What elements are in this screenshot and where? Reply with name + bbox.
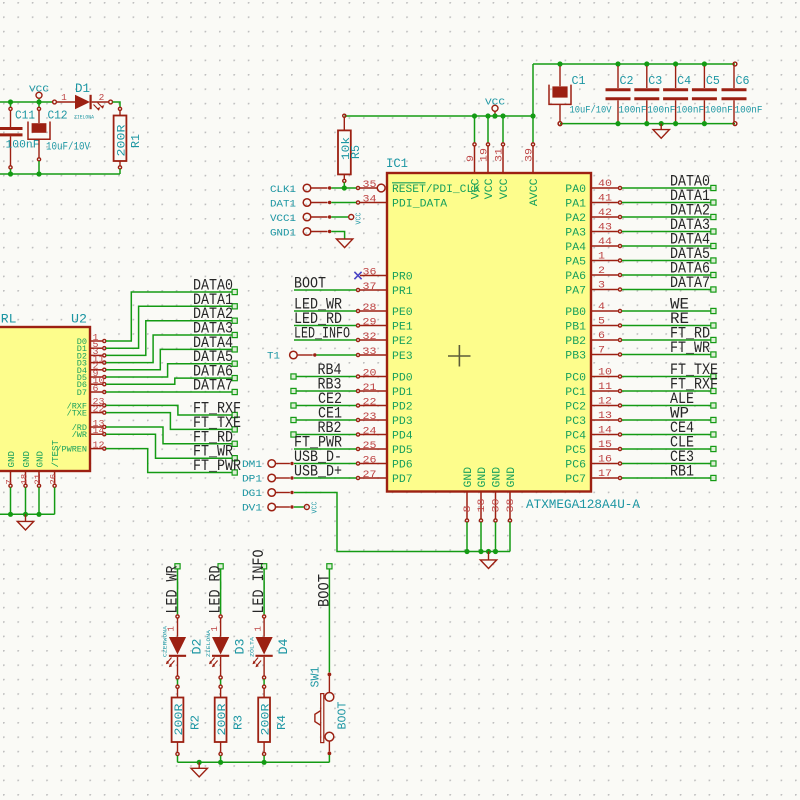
svg-text:26: 26 [363, 455, 377, 466]
node FT_RD [711, 337, 716, 342]
svg-text:ZOLTA: ZOLTA [248, 636, 255, 657]
wire net FT_TXE [106, 413, 232, 430]
node DATA0 [232, 289, 237, 294]
pin 14 PC4 [591, 434, 618, 436]
wire SW1 to rail [328, 755, 330, 762]
wire net FT_RD [106, 427, 232, 444]
node FT_TXE [232, 427, 237, 432]
svg-text:BOOT: BOOT [315, 574, 333, 607]
svg-text:38: 38 [506, 499, 517, 513]
capacitor C5 [703, 66, 705, 88]
capacitor C4 [675, 66, 677, 88]
diode D3 [219, 615, 222, 618]
pin 37 PR1 [360, 289, 387, 291]
wire DV1 net [294, 506, 304, 508]
svg-text:200R: 200R [217, 703, 229, 735]
pin 20 PD0 [360, 376, 387, 378]
node C6 bottom [733, 122, 737, 126]
svg-text:PD6: PD6 [392, 460, 413, 472]
pin 18 GND (U2 bottom) [25, 471, 27, 484]
svg-text:USB_D+: USB_D+ [294, 463, 342, 481]
svg-text:GND: GND [506, 466, 518, 487]
junction [23, 512, 28, 517]
node RB2 [291, 432, 296, 437]
svg-text:PC7: PC7 [565, 474, 586, 486]
node LED_RD [218, 564, 223, 569]
connector pin GND1 [303, 228, 311, 236]
pin 31 VCC (top) [502, 116, 504, 142]
junction [486, 549, 491, 554]
svg-text:200R: 200R [174, 703, 186, 735]
svg-text:4: 4 [598, 302, 605, 313]
svg-text:PA5: PA5 [565, 257, 586, 269]
svg-text:PD1: PD1 [392, 387, 413, 399]
wire net RB1 [622, 477, 711, 479]
pin 25 PD5 [360, 448, 387, 450]
pin 12 PC2 [591, 405, 618, 407]
svg-text:32: 32 [363, 332, 377, 343]
pin 4 PB0 [591, 310, 618, 312]
wire net RE [622, 325, 711, 327]
junction [557, 61, 562, 66]
svg-text:RB1: RB1 [670, 463, 694, 481]
wire net DATA2 [622, 216, 711, 218]
svg-text:PC3: PC3 [565, 416, 586, 428]
svg-text:12: 12 [93, 440, 105, 450]
pin 22 PD2 [360, 405, 387, 407]
pin 13 PC3 [591, 419, 618, 421]
junction [262, 760, 267, 765]
svg-text:100nF: 100nF [6, 140, 40, 152]
svg-text:FT_WR: FT_WR [670, 339, 710, 357]
pin 14 /WR (U2) [90, 433, 102, 435]
wire net DATA1 [106, 306, 232, 348]
svg-text:PC0: PC0 [565, 373, 586, 385]
capacitor C11 [10, 102, 12, 107]
pin 11 D3 (U2) [90, 362, 102, 364]
node C1 bottom [558, 122, 562, 126]
svg-text:U2: U2 [71, 312, 87, 327]
wire CLK1 net [331, 187, 356, 189]
pin 30 GND (bottom) [495, 492, 497, 519]
wire net FT_RXF [106, 405, 232, 415]
svg-text:35: 35 [363, 180, 377, 191]
node RB4 [291, 374, 296, 379]
pin 10 D6 (U2) [90, 383, 102, 385]
supply VCC [36, 92, 42, 98]
svg-text:36: 36 [363, 267, 377, 278]
wire net BOOT [294, 289, 356, 291]
ground (U2) [25, 514, 27, 521]
pin 3 PA7 [591, 289, 618, 291]
svg-text:16: 16 [598, 455, 612, 466]
svg-text:BOOT: BOOT [294, 275, 326, 293]
svg-text:LED_WR: LED_WR [164, 565, 182, 613]
node DATA7 [711, 287, 716, 292]
svg-text:19: 19 [480, 148, 491, 162]
svg-text:PA1: PA1 [565, 199, 586, 211]
svg-text:PD3: PD3 [392, 416, 413, 428]
svg-text:DP1: DP1 [242, 475, 262, 486]
wire R3 to rail [220, 756, 222, 763]
svg-text:AVCC: AVCC [529, 178, 541, 206]
wire U2 GND rail [0, 513, 55, 515]
svg-text:C12: C12 [48, 109, 68, 123]
diode D2 [176, 615, 179, 618]
node RB3 [291, 388, 296, 393]
svg-text:24: 24 [363, 426, 377, 437]
svg-text:25: 25 [363, 441, 377, 452]
capacitor C1 [559, 66, 561, 86]
node DATA6 [232, 376, 237, 381]
supply VCC (VCC1) [349, 215, 354, 220]
wire net ALE [622, 405, 711, 407]
pin 3 D2 (U2) [90, 354, 102, 356]
ground (GND1) [336, 239, 352, 248]
node FT_PWR [232, 470, 237, 475]
pin 5 PB1 [591, 325, 618, 327]
junction [218, 760, 223, 765]
connector pin CLK1 [303, 184, 311, 192]
svg-text:VCC: VCC [355, 213, 363, 225]
capacitor C3 [646, 66, 648, 88]
junction [8, 171, 13, 176]
wire net LED_RD (bottom) [220, 569, 222, 615]
node FT_RD [232, 441, 237, 446]
svg-text:42: 42 [598, 208, 612, 219]
junction [644, 61, 649, 66]
svg-text:PB1: PB1 [565, 322, 586, 334]
junction [702, 61, 707, 66]
svg-text:6: 6 [93, 384, 99, 394]
wire R2 to rail [177, 756, 179, 763]
wire net LED_INFO [294, 339, 356, 341]
node WE [711, 308, 716, 313]
svg-text:8: 8 [463, 506, 474, 513]
pin 23 /RXF (U2) [90, 404, 102, 406]
svg-text:D2: D2 [189, 639, 204, 655]
pin 1 PA5 [591, 260, 618, 262]
svg-text:ZIELONA: ZIELONA [205, 629, 212, 657]
connector pin DG1 [268, 489, 276, 497]
wire net WP [622, 419, 711, 421]
junction [8, 99, 13, 104]
svg-text:PD5: PD5 [392, 445, 413, 457]
node DATA0 [711, 185, 716, 190]
svg-text:C6: C6 [736, 74, 750, 88]
wire net CLE [622, 448, 711, 450]
wire net FT_RXF [622, 390, 711, 392]
wire net USB_D- [294, 463, 356, 465]
ground (LED rail) [198, 762, 200, 768]
wire net DATA0 [106, 292, 232, 341]
node DATA2 [232, 318, 237, 323]
svg-text:100nF: 100nF [735, 105, 763, 117]
svg-text:37: 37 [363, 282, 377, 293]
svg-text:18: 18 [20, 474, 30, 485]
node DATA3 [232, 332, 237, 337]
svg-text:PC4: PC4 [565, 431, 586, 443]
node CE1 [291, 417, 296, 422]
wire net DATA5 [622, 260, 711, 262]
node DATA6 [711, 272, 716, 277]
pin 5 D1 (U2) [90, 347, 102, 349]
svg-text:PA0: PA0 [565, 184, 586, 196]
op-amp IC1 body [387, 173, 591, 492]
pin 8 GND (bottom) [466, 492, 468, 519]
svg-text:GND: GND [463, 466, 475, 487]
svg-text:23: 23 [363, 412, 377, 423]
wire D3 to R3 [220, 679, 222, 685]
pin 18 GND (bottom) [480, 492, 482, 519]
svg-text:31: 31 [495, 148, 506, 162]
wire net DATA1 [622, 202, 711, 204]
svg-text:200R: 200R [261, 703, 273, 735]
wire T1 net [317, 354, 357, 356]
pin 34 PDI_DATA [360, 202, 387, 204]
svg-text:D1: D1 [75, 82, 90, 96]
svg-text:3: 3 [598, 281, 605, 292]
junction [342, 185, 347, 190]
svg-text:T1: T1 [267, 351, 280, 363]
wire net USB_D+ [294, 477, 356, 479]
svg-text:PA7: PA7 [565, 286, 586, 298]
svg-text:14: 14 [598, 426, 612, 437]
pin 15 PC5 [591, 448, 618, 450]
junction [615, 121, 620, 126]
wire net DATA4 [622, 245, 711, 247]
pin 42 PA2 [591, 216, 618, 218]
supply VCC [492, 105, 498, 111]
svg-text:43: 43 [598, 223, 612, 234]
svg-text:7: 7 [5, 479, 15, 485]
wire net DATA4 [106, 349, 232, 369]
svg-text:GND: GND [22, 451, 32, 468]
svg-text:D7: D7 [77, 388, 87, 398]
svg-text:GND1: GND1 [270, 227, 296, 239]
pin 23 PD3 [360, 419, 387, 421]
svg-text:22: 22 [363, 397, 377, 408]
wire net CE2 [296, 405, 356, 407]
svg-text:100nF: 100nF [647, 105, 675, 117]
wire net FT_RD [622, 339, 711, 341]
svg-text:11: 11 [598, 382, 612, 393]
wire net CE3 [622, 463, 711, 465]
node FT_WR [232, 456, 237, 461]
connector pin VCC1 [303, 213, 311, 221]
node DATA5 [711, 258, 716, 263]
svg-text:PC1: PC1 [565, 387, 586, 399]
pin 24 PD4 [360, 434, 387, 436]
svg-text:22: 22 [93, 404, 105, 414]
svg-text:PD0: PD0 [392, 373, 413, 385]
wire net DATA2 [106, 321, 232, 356]
pin 13 /RD (U2) [90, 426, 102, 428]
svg-text:DM1: DM1 [242, 460, 262, 471]
node IC1 origin cross [448, 345, 471, 367]
junction [464, 549, 469, 554]
pin 6 D7 (U2) [90, 391, 102, 393]
pin 7 PB3 [591, 354, 618, 356]
junction [673, 61, 678, 66]
wire net RB4 [296, 376, 356, 378]
junction [702, 121, 707, 126]
svg-text:DAT1: DAT1 [270, 198, 296, 210]
svg-text:PB0: PB0 [565, 307, 586, 319]
capacitor C6 [733, 66, 735, 88]
wire net FT_PWR [294, 448, 356, 450]
node CE2 [291, 403, 296, 408]
svg-text:9: 9 [466, 155, 477, 162]
svg-text:39: 39 [525, 148, 536, 162]
svg-text:VCC: VCC [485, 97, 505, 108]
pin 2 PA6 [591, 274, 618, 276]
pin 1 D0 (U2) [90, 340, 102, 342]
svg-text:2: 2 [598, 266, 605, 277]
svg-text:PE3: PE3 [392, 351, 413, 363]
junction [8, 512, 13, 517]
node CE3 [711, 461, 716, 466]
svg-text:33: 33 [363, 347, 377, 358]
pin 40 PA0 [591, 187, 618, 189]
pin 32 PE2 [360, 339, 387, 341]
svg-text:C4: C4 [677, 74, 691, 88]
pin 26 PD6 [360, 463, 387, 465]
svg-text:PD4: PD4 [392, 431, 413, 443]
wire D2 to R2 [177, 679, 179, 685]
wire net DATA7 [106, 391, 232, 393]
resistor R2 [176, 685, 179, 688]
svg-text:R2: R2 [189, 715, 203, 730]
svg-text:PDI_DATA: PDI_DATA [392, 199, 448, 211]
node FT_WR [711, 352, 716, 357]
supply VCC (DV1) [304, 505, 309, 510]
pin 19 VCC (top) [487, 116, 489, 142]
node LED_WR [175, 564, 180, 569]
svg-text:21: 21 [33, 474, 43, 485]
junction [478, 549, 483, 554]
pin 21 GND (U2 bottom) [38, 471, 40, 484]
wire net DATA6 [106, 378, 232, 384]
pin 17 PC7 [591, 477, 618, 479]
pin 28 PE0 [360, 310, 387, 312]
diode D4 [263, 615, 266, 618]
wire net FT_WR [106, 434, 232, 458]
node DATA1 [711, 200, 716, 205]
svg-text:5: 5 [598, 317, 605, 328]
svg-text:R5: R5 [349, 145, 363, 159]
svg-text:ZIELONA: ZIELONA [74, 113, 95, 120]
wire net FT_WR [622, 354, 711, 356]
wire DAT1 net [331, 202, 356, 204]
switch SW1 [328, 673, 332, 677]
svg-text:15: 15 [598, 440, 612, 451]
svg-text:GND: GND [36, 451, 46, 468]
svg-text:PD7: PD7 [392, 474, 413, 486]
svg-text:C5: C5 [706, 74, 720, 88]
svg-text:30: 30 [492, 499, 503, 513]
wire net LED_RD [294, 325, 356, 327]
node LED_INFO [262, 564, 267, 569]
node FT_RXF [711, 388, 716, 393]
svg-text:12: 12 [598, 397, 612, 408]
svg-text:C1: C1 [572, 74, 586, 88]
svg-text:27: 27 [363, 470, 377, 481]
resistor R4 [263, 685, 266, 688]
svg-text:LED_INFO: LED_INFO [250, 550, 268, 614]
junction [36, 512, 41, 517]
wire net DATA0 [622, 187, 711, 189]
wire net RB3 [296, 390, 356, 392]
node DATA1 [232, 304, 237, 309]
svg-text:VCC: VCC [484, 178, 496, 199]
svg-text:PA6: PA6 [565, 271, 586, 283]
wire net LED_WR (bottom) [177, 569, 179, 615]
node ALE [711, 403, 716, 408]
svg-text:PA3: PA3 [565, 228, 586, 240]
wire net DATA3 [106, 335, 232, 363]
pin 21 PD1 [360, 390, 387, 392]
pin 2 D4 (U2) [90, 369, 102, 371]
svg-text:100nF: 100nF [676, 105, 704, 117]
svg-text:CLK1: CLK1 [270, 184, 296, 196]
svg-text:/TEST: /TEST [51, 439, 61, 467]
svg-text:VCC1: VCC1 [270, 213, 296, 225]
wire net LED_INFO (bottom) [263, 569, 265, 615]
wire GND1 net [331, 232, 344, 240]
op-amp U2 body [0, 327, 90, 471]
svg-text:200R: 200R [117, 124, 129, 156]
svg-text:DG1: DG1 [242, 489, 262, 500]
svg-text:7: 7 [598, 346, 605, 357]
wire net FT_PWR [106, 449, 232, 473]
svg-text:IC1: IC1 [386, 156, 408, 171]
svg-text:BOOT: BOOT [336, 702, 350, 730]
svg-text:VCC: VCC [29, 84, 49, 95]
svg-text:17: 17 [598, 469, 612, 480]
node DATA7 [232, 389, 237, 394]
svg-text:C2: C2 [620, 74, 634, 88]
pin 44 PA4 [591, 245, 618, 247]
junction [530, 113, 535, 118]
wire net DATA6 [622, 274, 711, 276]
wire net LED_WR [294, 310, 356, 312]
svg-text:GND: GND [7, 451, 17, 468]
svg-text:PD2: PD2 [392, 402, 413, 414]
pin 26 /TEST (U2 bottom) [54, 471, 56, 484]
capacitor C2 [617, 66, 619, 88]
svg-text:PC5: PC5 [565, 445, 586, 457]
svg-text:RESET/PDI_CLK: RESET/PDI_CLK [392, 184, 480, 196]
capacitor C12 [38, 102, 40, 107]
node CE4 [711, 432, 716, 437]
svg-text:10: 10 [598, 368, 612, 379]
node FT_TXE [711, 374, 716, 379]
svg-text:13: 13 [598, 411, 612, 422]
svg-text:PB3: PB3 [565, 351, 586, 363]
node DATA4 [711, 243, 716, 248]
pin 6 PB2 [591, 339, 618, 341]
svg-text:PC6: PC6 [565, 460, 586, 472]
svg-text:44: 44 [598, 237, 612, 248]
pin 9 VCC (top) [474, 116, 476, 142]
connector pin DAT1 [303, 199, 311, 207]
wire net DATA7 [622, 289, 711, 291]
svg-text:18: 18 [477, 499, 488, 513]
svg-text:1: 1 [253, 626, 263, 631]
svg-text:VCC: VCC [499, 178, 511, 199]
wire net DATA5 [106, 364, 232, 377]
